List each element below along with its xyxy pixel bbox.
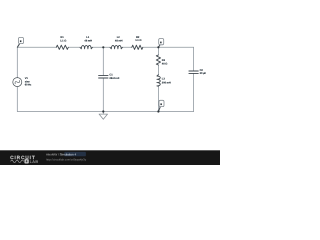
probe P2 dot	[160, 42, 162, 44]
voltage source V1 circle	[13, 78, 22, 87]
resistor R1	[56, 45, 68, 49]
resistor R2	[132, 45, 143, 49]
probe flag P1 box	[19, 37, 24, 43]
svg-text:AlexMW / Simulation 4: AlexMW / Simulation 4	[46, 153, 77, 157]
wire between L1 and node A	[92, 46, 110, 48]
wire right vertical below C2	[193, 73, 195, 111]
junction node B top	[157, 46, 159, 48]
ground stub	[102, 112, 104, 115]
wire between L2 and R2	[122, 46, 131, 48]
junction node A top	[102, 46, 104, 48]
probe flag P2 diagonal	[158, 45, 160, 48]
resistor R3 (vertical)	[156, 55, 160, 65]
inductor L3 (vertical)	[157, 75, 160, 87]
capacitor C2 plates	[189, 71, 198, 73]
footer logo squiggle	[11, 160, 24, 163]
wire middle branch between R3 and L3	[157, 65, 159, 75]
wire between R1 and L1	[68, 46, 80, 48]
V1 sine symbol	[14, 79, 20, 85]
wire C1 branch upper	[102, 47, 104, 75]
ground triangle	[99, 114, 107, 119]
junction node bottom middle	[157, 110, 159, 112]
wire left vertical above V1	[16, 47, 18, 77]
probe flag P1 diagonal	[17, 44, 19, 48]
inductor L2	[110, 45, 122, 48]
wire top left segment	[17, 46, 56, 48]
wire middle branch below L3	[157, 86, 159, 111]
probe flag P3 box	[159, 100, 164, 106]
svg-text:http://circuitlab.com/c49yqwfj: http://circuitlab.com/c49yqwfjv3y	[46, 158, 87, 162]
capacitor C1 plates	[99, 76, 108, 78]
svg-text:LAB: LAB	[30, 159, 39, 164]
probe flag P3 diagonal	[159, 107, 161, 111]
inductor L1	[80, 45, 92, 48]
footer bar	[0, 150, 220, 165]
probe flag P2 box	[159, 39, 164, 45]
wire left vertical below V1	[16, 87, 18, 112]
wire bottom	[17, 111, 193, 113]
footer title line	[64, 152, 86, 156]
probe P1 dot	[20, 40, 22, 42]
junction node ground	[102, 110, 104, 112]
wire between R2 and node B / right corner	[143, 46, 194, 48]
wire middle branch above R3	[157, 47, 159, 55]
probe P3 dot	[160, 103, 162, 105]
wire right vertical above C2	[193, 47, 195, 71]
footer logo bolt	[24, 159, 28, 163]
wire C1 branch lower	[102, 78, 104, 112]
